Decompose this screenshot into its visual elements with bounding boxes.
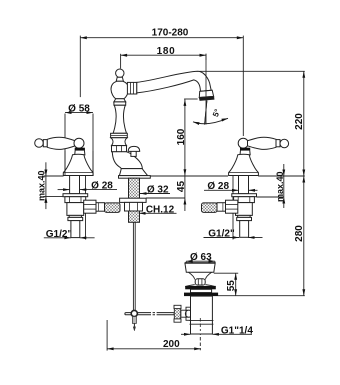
svg-text:280: 280: [294, 225, 305, 242]
svg-text:55: 55: [226, 280, 237, 292]
svg-text:45: 45: [176, 181, 187, 193]
svg-text:180: 180: [157, 46, 176, 57]
svg-text:G1"1/4: G1"1/4: [221, 326, 253, 337]
svg-text:200: 200: [163, 339, 180, 350]
svg-text:Ø 58: Ø 58: [68, 103, 90, 114]
svg-text:160: 160: [176, 128, 187, 145]
svg-text:G1/2": G1/2": [208, 229, 235, 240]
svg-text:max.40: max.40: [275, 171, 285, 202]
svg-text:220: 220: [294, 113, 305, 130]
svg-text:Ø 32: Ø 32: [147, 185, 169, 196]
svg-text:max.40: max.40: [37, 170, 47, 201]
svg-text:CH.12: CH.12: [146, 204, 175, 215]
svg-text:G1/2": G1/2": [46, 229, 73, 240]
svg-text:Ø 63: Ø 63: [190, 252, 212, 263]
svg-text:Ø 28: Ø 28: [91, 181, 113, 192]
svg-text:170-280: 170-280: [152, 27, 189, 38]
svg-text:Ø 28: Ø 28: [207, 181, 229, 192]
